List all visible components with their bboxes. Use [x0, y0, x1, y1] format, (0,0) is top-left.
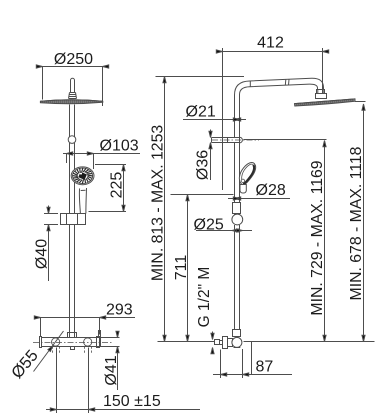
dimension Ø25 line: [196, 230, 252, 232]
riser pipe right figure: [235, 96, 240, 138]
pipe collar above fitting: [233, 330, 241, 337]
slider holder: [61, 214, 86, 225]
ball joint: [68, 136, 76, 144]
hand shower side view: [239, 163, 255, 185]
mixer right knob: [84, 338, 92, 346]
svg-text:MIN. 813 - MAX. 1253: MIN. 813 - MAX. 1253: [150, 125, 167, 281]
svg-text:293: 293: [106, 302, 133, 319]
dimension 711 line: [187, 195, 189, 342]
label Ø55 text: [8, 347, 42, 382]
wall bar bracket: [212, 138, 240, 143]
svg-text:Ø41: Ø41: [103, 355, 120, 385]
extension line MIN678 top: [355, 101, 366, 103]
svg-text:225: 225: [108, 172, 125, 199]
svg-text:G 1/2" M: G 1/2" M: [196, 267, 213, 328]
dimension 225 text: [108, 172, 125, 199]
dimension 150±15 ext lines: [57, 348, 89, 414]
slider ball Ø25: [232, 214, 243, 225]
dimension Ø103 line: [63, 153, 140, 155]
dimension Ø21 line: [183, 119, 246, 121]
mixer left cap: [40, 337, 42, 348]
dimension MIN813 line: [164, 77, 166, 342]
svg-text:Ø103: Ø103: [100, 138, 139, 155]
arm right bend down: [310, 78, 324, 90]
svg-text:Ø21: Ø21: [186, 104, 216, 121]
svg-text:Ø250: Ø250: [54, 51, 93, 68]
svg-text:87: 87: [256, 358, 274, 375]
svg-text:711: 711: [173, 255, 190, 281]
extension line 412 left: [222, 48, 224, 190]
dimension MIN678 text: [348, 146, 365, 300]
svg-text:Ø28: Ø28: [256, 182, 286, 199]
dimension Ø28 line: [228, 198, 290, 200]
dimension 225 line: [123, 165, 125, 212]
extension line MIN729 top: [244, 139, 327, 141]
dimension Ø36 arrows: [210, 130, 212, 181]
svg-text:MIN. 678 - MAX. 1118: MIN. 678 - MAX. 1118: [348, 146, 365, 300]
dimension 293 line: [41, 317, 136, 319]
dimension 293 text: [106, 302, 133, 319]
arm joint lines: [250, 80, 289, 87]
dimension Ø21 text: [186, 104, 216, 121]
extension line left of Ø250: [42, 67, 44, 100]
dimension Ø103 text: [100, 138, 139, 155]
dimension 711 text: [173, 255, 190, 281]
mixer right collar: [97, 337, 100, 348]
wall union fitting: [215, 340, 220, 345]
overhead shower head disc: [40, 100, 102, 104]
dimension 412 text: [257, 35, 284, 52]
top bend: [235, 78, 312, 97]
svg-text:Ø36: Ø36: [195, 150, 212, 180]
riser pipe middle: [70, 143, 75, 214]
dimension 225 ext lines: [89, 165, 127, 212]
supply ext line right: [244, 341, 375, 343]
dimension Ø28 text: [256, 182, 286, 199]
mixer outlet stub: [71, 347, 75, 350]
dimension MIN813 text: [150, 125, 167, 281]
svg-text:Ø40: Ø40: [34, 239, 51, 269]
riser pipe below bracket: [235, 143, 240, 215]
dimension Ø40 line and arrows: [48, 206, 50, 282]
svg-text:150 ±15: 150 ±15: [103, 393, 161, 410]
mixer hidden connections: [53, 347, 92, 354]
hand shower handle: [79, 188, 86, 214]
rail pipe lower: [70, 225, 75, 338]
dimension Ø40 text: [34, 239, 51, 269]
dimension Ø250 line: [43, 66, 103, 68]
overhead collar: [69, 93, 77, 99]
extension lines 293: [41, 318, 100, 337]
dimension Ø41 ext lines: [101, 338, 120, 347]
riser pipe lower right figure: [235, 225, 240, 337]
dimension 87 ext lines: [221, 342, 252, 379]
pipe sleeve above ball: [233, 203, 241, 214]
dimension 87 text: [256, 358, 274, 375]
dimension Ø41 line: [117, 331, 119, 390]
dimension 150±15 text: [103, 393, 161, 410]
dimension Ø25 text: [194, 217, 224, 234]
dimension 150±15 line: [46, 409, 200, 411]
dimension 412 line: [223, 51, 323, 53]
dimension MIN729 text: [309, 160, 326, 315]
extension line right of Ø250: [102, 67, 104, 107]
hand shower holder clip: [240, 185, 246, 194]
fitting ball: [232, 337, 242, 347]
svg-text:412: 412: [257, 35, 284, 52]
svg-text:MIN. 729 - MAX. 1169: MIN. 729 - MAX. 1169: [309, 160, 326, 315]
bracket centerline: [212, 139, 259, 141]
dimension Ø36 text: [195, 150, 212, 180]
riser pipe below head: [70, 105, 75, 137]
pipe collar above mixer: [68, 333, 77, 338]
hand shower face: [71, 167, 94, 185]
label G 1/2 M text: [196, 267, 213, 328]
rain head side view: [295, 99, 356, 106]
leader line Ø55: [34, 331, 64, 372]
head connector nut: [316, 94, 327, 99]
dimension Ø41 text: [103, 355, 120, 385]
extension line min813 top: [156, 76, 245, 78]
mixer left knob: [52, 338, 60, 346]
head connector sleeve: [317, 90, 325, 94]
G 1/2 arrows: [212, 332, 214, 353]
dimension 87 line: [213, 374, 292, 376]
mixer diverter pin: [98, 331, 101, 338]
extension line 412 right: [322, 48, 324, 94]
dimension Ø40 ext lines: [44, 214, 58, 225]
dimension MIN729 line: [324, 141, 326, 342]
extension stubs Ø103: [67, 154, 94, 170]
dimension MIN678 line: [363, 104, 365, 342]
mixer centerline: [33, 342, 112, 344]
supply ext line left: [158, 341, 215, 343]
mixer body: [42, 338, 101, 347]
dimension Ø250 text: [54, 51, 93, 68]
extension line 711 top: [171, 194, 234, 196]
overhead pipe stub: [71, 78, 75, 92]
